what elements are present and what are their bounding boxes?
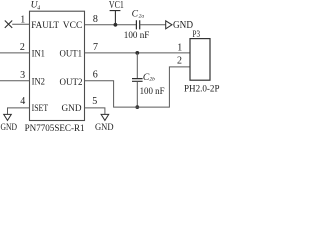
svg-text:PH2.0-2P: PH2.0-2P (184, 83, 220, 94)
svg-text:FAULT: FAULT (31, 20, 59, 31)
connector pin number 1 (177, 42, 182, 53)
wire pin4 ISET to ground (8, 108, 30, 115)
ground net label GND (top right) (173, 19, 193, 31)
wire pin3 IN2 (0, 80, 30, 82)
pin number 1 (20, 15, 25, 26)
ground symbol at pin 5 (101, 114, 109, 120)
svg-text:GND: GND (1, 122, 18, 133)
capacitor C2b label (143, 72, 155, 83)
power net label VC1 (109, 0, 124, 11)
wire cap C2a to GND arrow (140, 24, 166, 26)
pin number 8 (93, 14, 98, 25)
svg-text:2b: 2b (149, 77, 155, 83)
wire pin1 FAULT (12, 23, 29, 25)
svg-text:1: 1 (177, 42, 182, 53)
svg-text:P3: P3 (193, 29, 201, 40)
svg-text:100 nF: 100 nF (124, 30, 150, 41)
connector pin number 2 (177, 56, 182, 67)
svg-text:8: 8 (93, 14, 98, 25)
wire C2b upper lead (136, 53, 138, 79)
svg-text:GND: GND (173, 19, 193, 31)
svg-text:OUT2: OUT2 (60, 77, 83, 88)
svg-text:IN2: IN2 (32, 77, 45, 88)
junction dot C2b / OUT2 net (135, 105, 139, 109)
svg-text:3: 3 (20, 70, 25, 81)
IC pin name OUT1 (60, 49, 83, 60)
connector designator P3 (193, 29, 201, 40)
IC pin name OUT2 (60, 77, 83, 88)
junction dot VC1 on VCC wire (114, 23, 118, 27)
IC U4 box (30, 11, 85, 120)
capacitor C2a value 100 nF (124, 30, 150, 41)
svg-text:2: 2 (20, 42, 25, 53)
capacitor C2a plates (136, 20, 139, 29)
IC pin name VCC (63, 20, 83, 31)
pin number 7 (93, 42, 98, 53)
IC U4 designator (31, 0, 41, 12)
ground label GND at pin 5 (95, 122, 114, 133)
svg-text:IN1: IN1 (32, 48, 45, 59)
pin number 5 (92, 96, 97, 107)
wire pin7 OUT1 to connector P3 pin1 (85, 52, 191, 54)
wire C2b lower lead (136, 81, 138, 107)
svg-text:VC1: VC1 (109, 0, 124, 11)
IC pin name FAULT (31, 20, 59, 31)
power tap VC1 symbol (110, 11, 121, 25)
IC part number PN7705SEC-R1 (25, 124, 85, 134)
svg-text:7: 7 (93, 42, 98, 53)
capacitor C2a label (132, 9, 145, 20)
pin number 3 (20, 70, 25, 81)
pin number 6 (93, 70, 98, 81)
connector part number PH2.0-2P (184, 83, 220, 94)
svg-text:C: C (132, 9, 139, 20)
ground symbol at pin 4 (4, 114, 12, 120)
svg-text:2a: 2a (139, 13, 145, 19)
svg-text:4: 4 (20, 96, 25, 107)
svg-text:OUT1: OUT1 (60, 49, 83, 60)
svg-text:2: 2 (177, 56, 182, 67)
ground arrow symbol (right pointing) (166, 21, 172, 29)
svg-text:GND: GND (62, 103, 82, 114)
svg-text:4: 4 (37, 5, 40, 12)
wire pin6 OUT2 to connector P3 pin2 (85, 67, 191, 107)
wire pin2 IN1 (0, 52, 30, 54)
svg-text:100 nF: 100 nF (140, 86, 165, 97)
svg-text:VCC: VCC (63, 20, 83, 31)
IC pin name IN1 (32, 48, 45, 59)
wire pin5 GND to ground (84, 108, 105, 115)
capacitor C2b value 100 nF (140, 86, 165, 97)
svg-text:6: 6 (93, 70, 98, 81)
IC pin name GND (62, 103, 82, 114)
svg-text:ISET: ISET (32, 103, 49, 114)
capacitor C2b plates (132, 79, 143, 82)
junction dot OUT1 / C2b (135, 51, 139, 55)
IC pin name ISET (32, 103, 49, 114)
svg-text:PN7705SEC-R1: PN7705SEC-R1 (25, 124, 85, 134)
svg-text:GND: GND (95, 122, 114, 133)
ground label GND at pin 4 (1, 122, 18, 133)
pin number 2 (20, 42, 25, 53)
wire pin8 VCC to decoupling cap (85, 24, 137, 26)
svg-text:5: 5 (92, 96, 97, 107)
connector P3 box (190, 39, 210, 81)
pin number 4 (20, 96, 25, 107)
no-connect X on pin 1 (5, 21, 12, 28)
IC pin name IN2 (32, 77, 45, 88)
